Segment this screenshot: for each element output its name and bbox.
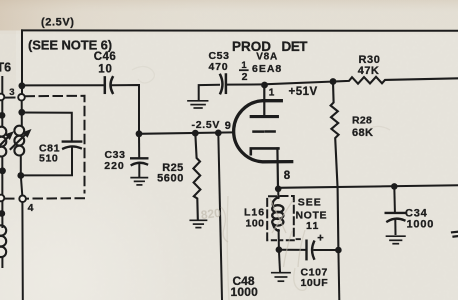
inductor L16 [272, 197, 283, 231]
label PROD DET [232, 39, 308, 54]
label R30 [358, 54, 381, 77]
capacitor partial right edge [452, 232, 458, 237]
pencil 820 [200, 206, 222, 222]
node primary dot [0, 112, 5, 119]
svg-text:820: 820 [200, 206, 222, 222]
tube V8A grid [254, 130, 275, 133]
capacitor C107 [307, 241, 315, 260]
node junction dot C81 top [18, 109, 25, 116]
dashed box L16 note 11 [267, 196, 294, 240]
label +51V [289, 86, 318, 98]
dashed shield box terminals 3-4 [5, 96, 85, 199]
label R25 [157, 162, 184, 184]
label -2.5V [192, 119, 221, 131]
transformer T6 secondary winding [14, 126, 24, 156]
dashed link terminal 3 left [6, 97, 18, 99]
capacitor C46 [105, 77, 113, 93]
svg-text:470: 470 [209, 61, 229, 73]
svg-text:R28: R28 [352, 114, 372, 126]
label (2.5V) [41, 17, 75, 29]
capacitor C81 loop wires [21, 113, 72, 176]
wire -2.5V grid line [139, 132, 232, 133]
transformer T6 lower winding [0, 225, 6, 257]
ground R25 [190, 220, 206, 227]
inductor L16 lead top [277, 189, 279, 198]
svg-text:100: 100 [246, 218, 265, 230]
wire C46 to grid line [112, 85, 139, 130]
label C53 [208, 50, 229, 73]
wire ground lead L16 [279, 250, 280, 272]
node R25 junction [192, 130, 199, 137]
node primary dot 2 [0, 167, 6, 174]
label (SEE NOTE 6) [28, 38, 112, 53]
svg-text:DET: DET [282, 39, 309, 54]
capacitor C53 [220, 75, 226, 94]
capacitor C34 [386, 213, 405, 222]
node C107 right junction [335, 247, 342, 254]
svg-text:1000: 1000 [407, 218, 435, 230]
label pin 8 [284, 170, 291, 182]
label C107 [301, 267, 329, 290]
label 3 [9, 87, 14, 98]
capacitor C33 lead [138, 134, 140, 157]
pencil marks faint [132, 67, 390, 300]
svg-text:10: 10 [98, 64, 112, 76]
resistor R28 [331, 82, 339, 250]
node 3 junction dot [19, 82, 26, 89]
node L16 bottom junction [276, 246, 283, 253]
label C107 plus [317, 232, 323, 244]
svg-text:68K: 68K [352, 127, 373, 139]
label pin 1 [269, 88, 275, 99]
label C46 [94, 51, 117, 75]
wire C33 to ground [138, 165, 140, 177]
node -2.5V line left junction [136, 130, 143, 137]
ground C33 [131, 178, 147, 185]
wire C34 to ground [394, 220, 396, 234]
svg-text:C46: C46 [94, 51, 117, 63]
wire primary bottom end [1, 257, 3, 267]
svg-text:1: 1 [269, 88, 275, 99]
svg-text:T6: T6 [0, 61, 11, 75]
terminal 4 circle [19, 196, 26, 203]
label SEE NOTE 11 [296, 197, 328, 233]
capacitor C81 [63, 142, 81, 149]
svg-text:9: 9 [225, 120, 231, 132]
label T6 [0, 61, 11, 75]
svg-text:SEE: SEE [298, 197, 322, 209]
svg-text:47K: 47K [358, 65, 379, 77]
svg-text:-2.5V: -2.5V [192, 119, 221, 131]
svg-text:5600: 5600 [157, 172, 184, 184]
wire L16 to C107 [279, 249, 305, 251]
svg-text:510: 510 [39, 152, 58, 164]
node plate junction [261, 82, 268, 89]
label C48 [231, 274, 259, 299]
svg-text:(2.5V): (2.5V) [41, 17, 75, 29]
terminal circle primary bottom [0, 195, 4, 202]
ground C34 [387, 236, 405, 244]
node C48 line junction [215, 130, 222, 137]
svg-text:+: + [317, 232, 323, 244]
tube V8A cathode [251, 148, 279, 188]
svg-text:V8A: V8A [256, 51, 278, 62]
label R28 [352, 114, 373, 139]
node primary dot 3 [0, 210, 5, 217]
node R30 junction [330, 78, 337, 85]
tube V8A envelope [234, 101, 292, 162]
svg-text:+51V: +51V [289, 86, 318, 98]
wire C107 to R28 line [314, 249, 338, 251]
wire top bus (2.5V) [22, 29, 458, 31]
ground C53 [188, 101, 208, 108]
wire C53 to plate node [226, 83, 265, 85]
wire terminal 4 down to edge [21, 202, 23, 300]
label 1/2 fraction [239, 60, 249, 83]
transformer T6 primary winding [0, 127, 6, 157]
wire long down to C48 [218, 133, 222, 300]
capacitor C33 [131, 158, 147, 165]
label V8A [256, 51, 278, 62]
transformer T6 primary line [1, 77, 3, 126]
wire 2.5V to C46 [22, 84, 103, 86]
label L16 [244, 207, 265, 230]
svg-text:8: 8 [284, 170, 291, 182]
svg-text:1000: 1000 [231, 285, 259, 299]
node cathode junction [275, 186, 282, 193]
label C107 minus [296, 238, 301, 240]
wire winding bottom to node 4 [21, 156, 23, 196]
label 4 [28, 202, 34, 214]
svg-text:6EA8: 6EA8 [252, 63, 282, 75]
transformer T6 tuning arrow [11, 129, 32, 149]
tube V8A plate [251, 85, 277, 117]
wire top-left corner down [21, 30, 23, 94]
terminal circle primary top [0, 94, 4, 101]
svg-text:220: 220 [104, 160, 125, 172]
label 6EA8 [252, 63, 282, 75]
inductor L16 lead bottom [278, 230, 280, 250]
svg-text:10UF: 10UF [301, 277, 329, 289]
label C33 [104, 149, 125, 172]
wire C53 ground lead [199, 85, 219, 101]
terminal 3 circle [18, 94, 25, 101]
svg-text:2: 2 [242, 71, 248, 83]
wire terminal3 to C81 loop [21, 101, 23, 126]
label C34 [405, 207, 434, 230]
node C34 junction [391, 183, 398, 190]
wire R28 line to bottom edge [337, 250, 340, 300]
transformer T6 primary arrow [0, 131, 14, 150]
ground L16 [272, 273, 290, 282]
wire primary mid [1, 157, 3, 228]
wire cathode line to right edge [278, 185, 458, 188]
capacitor C34 lead [393, 186, 396, 211]
resistor R30 [333, 77, 458, 84]
label C81 [39, 143, 60, 165]
svg-text:11: 11 [306, 220, 320, 232]
svg-text:3: 3 [9, 87, 14, 98]
wire +51V to R30 [265, 82, 334, 85]
svg-text:4: 4 [28, 202, 34, 214]
node junction dot C81 bottom [17, 172, 24, 179]
resistor R25 [193, 133, 200, 218]
label pin 9 [225, 120, 231, 132]
